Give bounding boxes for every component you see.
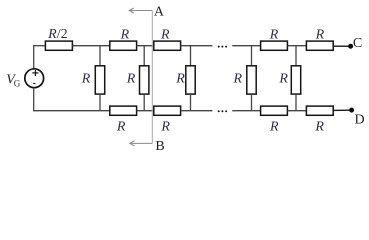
- wire bottom rail segment 5: [287, 110, 306, 112]
- resistor R top 3: [261, 27, 288, 50]
- wire top rail segment 4: [181, 45, 213, 47]
- svg-text:R: R: [160, 27, 170, 42]
- svg-text:D: D: [355, 112, 365, 127]
- wire top rail segment 2: [72, 45, 109, 47]
- svg-text:R/2: R/2: [47, 27, 67, 42]
- resistor R top 4: [306, 27, 333, 50]
- wire bottom rail segment 3: [181, 110, 213, 112]
- svg-text:R: R: [269, 27, 279, 42]
- resistor R bottom 2: [154, 106, 181, 135]
- shunt resistor R 1: [81, 46, 105, 111]
- shunt resistor R 2: [126, 46, 149, 111]
- wire top rail segment 3: [137, 45, 154, 47]
- svg-text:R: R: [175, 71, 185, 86]
- wire left branch upper: [33, 45, 35, 69]
- svg-text:R: R: [278, 71, 288, 86]
- resistor R bottom 3: [261, 106, 288, 135]
- resistor R top 1: [110, 27, 137, 50]
- resistor R bottom 4: [306, 106, 333, 135]
- wire bottom rail to D: [333, 109, 349, 111]
- svg-text:R: R: [126, 71, 136, 86]
- svg-text:R: R: [116, 120, 126, 135]
- shunt resistor R 5: [278, 46, 300, 111]
- wire bottom rail segment 2: [137, 110, 154, 112]
- svg-text:A: A: [154, 5, 165, 20]
- svg-text:R: R: [120, 27, 130, 42]
- resistor R/2: [45, 27, 72, 50]
- svg-text:C: C: [353, 36, 362, 51]
- ellipsis bottom rail: [218, 110, 227, 112]
- svg-text:G: G: [14, 79, 21, 89]
- wire top rail left segment: [34, 45, 46, 47]
- wire top rail to C: [333, 45, 348, 47]
- node D dot: [349, 108, 354, 113]
- arrow A: [129, 8, 152, 13]
- svg-text:R: R: [233, 71, 243, 86]
- shunt resistor R 3: [175, 46, 195, 111]
- resistor R top 2: [154, 27, 181, 50]
- arrow B: [130, 141, 153, 146]
- node C dot: [348, 44, 353, 49]
- wire bottom rail left segment: [34, 110, 110, 112]
- wire top rail segment 5: [232, 45, 260, 47]
- wire left branch lower: [33, 88, 35, 112]
- wire top rail segment 6: [287, 45, 306, 47]
- wire bottom rail segment 4: [232, 110, 260, 112]
- svg-text:B: B: [155, 139, 164, 151]
- resistor R bottom 1: [110, 106, 137, 135]
- shunt resistor R 4: [233, 46, 257, 111]
- svg-text:R: R: [81, 71, 91, 86]
- svg-text:R: R: [160, 120, 170, 135]
- svg-text:R: R: [315, 27, 325, 42]
- svg-text:R: R: [269, 120, 279, 135]
- ellipsis top rail: [218, 46, 227, 48]
- source V_G: [6, 69, 43, 89]
- svg-text:R: R: [314, 120, 324, 135]
- cut line A-B: [151, 11, 153, 144]
